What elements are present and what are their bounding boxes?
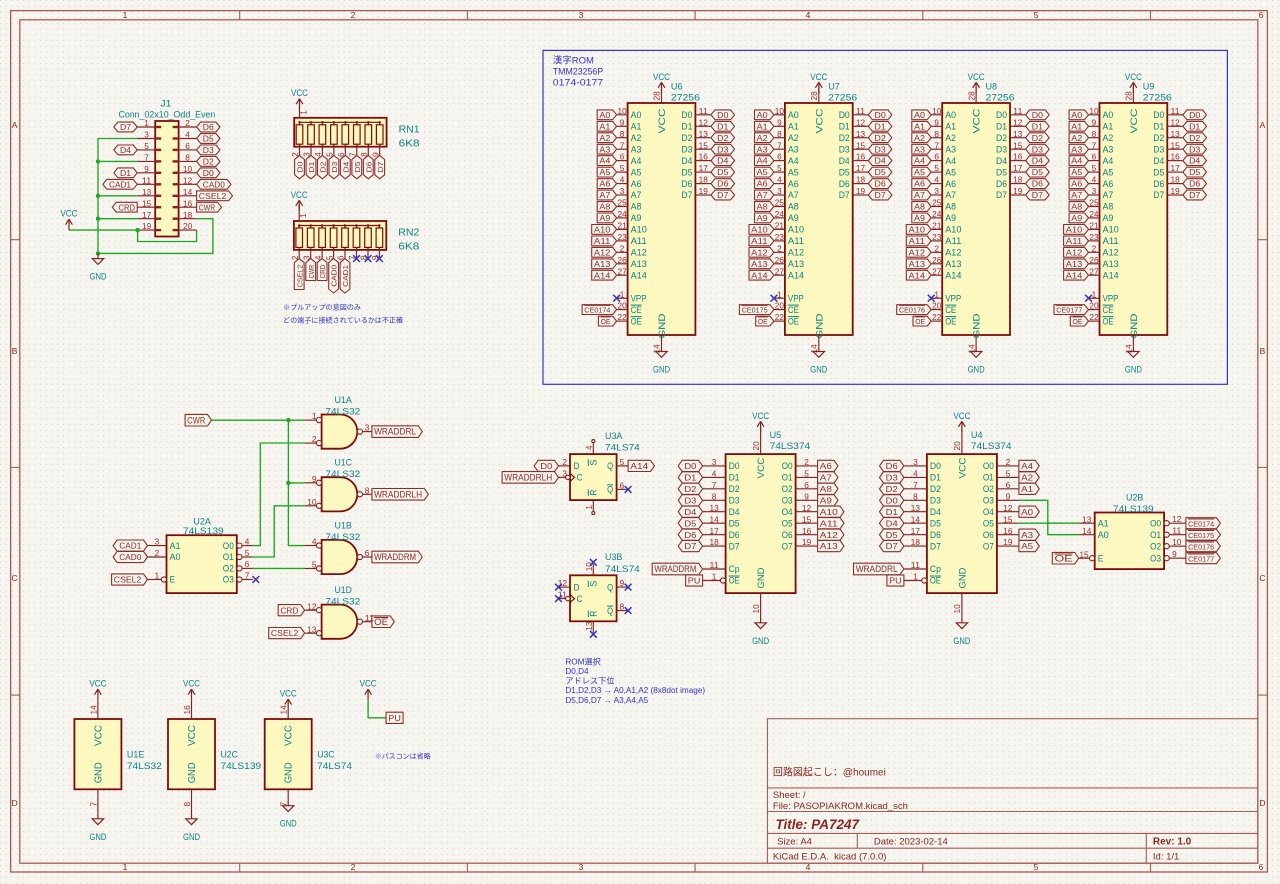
- global label D6: [363, 155, 373, 178]
- global label A0 (U4 O4): [1019, 506, 1039, 517]
- svg-text:D0: D0: [681, 110, 692, 120]
- svg-text:A8: A8: [945, 202, 956, 212]
- svg-text:1: 1: [155, 572, 160, 581]
- svg-text:A5: A5: [1071, 168, 1083, 177]
- svg-text:D4: D4: [930, 507, 941, 517]
- global label D2 (U4 D2): [880, 483, 904, 494]
- svg-text:A12: A12: [751, 248, 768, 257]
- global label CRD: [112, 202, 137, 212]
- global label OE (U8): [913, 316, 931, 326]
- svg-text:CE: CE: [1103, 305, 1114, 315]
- svg-text:18: 18: [1013, 176, 1023, 185]
- svg-text:D5: D5: [875, 168, 887, 177]
- global label A1 (U9): [1069, 121, 1088, 131]
- svg-text:A10: A10: [820, 507, 838, 517]
- svg-text:D4: D4: [996, 156, 1007, 166]
- svg-text:D6: D6: [839, 179, 850, 189]
- svg-text:A8: A8: [1071, 203, 1083, 212]
- svg-text:A12: A12: [820, 530, 838, 540]
- svg-text:19: 19: [802, 538, 812, 547]
- svg-text:A11: A11: [945, 236, 961, 246]
- global label D2: [318, 155, 328, 178]
- svg-text:D5: D5: [839, 167, 850, 177]
- svg-text:D7: D7: [717, 191, 729, 200]
- svg-text:CAD1: CAD1: [109, 180, 132, 189]
- no-connect R U3B: [590, 631, 597, 638]
- svg-text:A14: A14: [909, 271, 926, 280]
- svg-text:D5: D5: [930, 518, 941, 528]
- global label A3 (U8): [912, 144, 931, 154]
- svg-text:27256: 27256: [671, 93, 700, 104]
- global label WRADDRLH (out U1C): [372, 489, 428, 501]
- svg-text:VCC: VCC: [653, 72, 670, 82]
- svg-text:A14: A14: [788, 270, 804, 280]
- svg-text:1: 1: [913, 573, 918, 582]
- svg-text:A9: A9: [914, 214, 926, 223]
- power flag VCC: [66, 219, 73, 230]
- global label A4 (U8): [912, 156, 931, 166]
- svg-text:WRADDRLH: WRADDRLH: [374, 489, 422, 499]
- svg-text:D6: D6: [930, 530, 941, 540]
- svg-text:A3: A3: [788, 144, 799, 154]
- svg-text:A2: A2: [945, 133, 956, 143]
- svg-text:7: 7: [913, 481, 918, 490]
- global label D0 (U6): [711, 110, 735, 120]
- svg-text:10: 10: [1172, 538, 1182, 547]
- svg-text:D0: D0: [886, 495, 898, 505]
- svg-text:D1: D1: [839, 122, 850, 132]
- power unit U3C: [265, 719, 312, 789]
- junction: [286, 418, 290, 422]
- svg-text:8: 8: [777, 130, 782, 139]
- no-connect VPP U9: [1085, 295, 1092, 302]
- svg-text:A: A: [1260, 120, 1266, 130]
- flip-flop U3A 74LS74: [570, 454, 617, 500]
- svg-text:D6: D6: [996, 179, 1007, 189]
- svg-text:D5: D5: [1032, 168, 1044, 177]
- svg-text:3: 3: [934, 187, 939, 196]
- wire: [253, 567, 305, 569]
- svg-text:12: 12: [1172, 515, 1182, 524]
- svg-text:O2: O2: [782, 484, 793, 494]
- global label CE0177: [1054, 305, 1089, 315]
- svg-text:GND: GND: [752, 636, 769, 646]
- svg-text:D6: D6: [684, 530, 696, 540]
- svg-text:A10: A10: [945, 225, 961, 235]
- register U5 74LS374: [726, 454, 796, 593]
- svg-text:21: 21: [775, 222, 785, 231]
- global label D7 (U8): [1026, 190, 1050, 200]
- global label D4 (U9): [1183, 156, 1207, 166]
- global label D6 (U5 D6): [678, 529, 702, 540]
- global label D4 (U8): [1026, 156, 1050, 166]
- svg-text:A12: A12: [594, 248, 611, 257]
- wire: [1019, 500, 1079, 534]
- svg-text:A14: A14: [945, 270, 961, 280]
- svg-text:A12: A12: [788, 248, 804, 258]
- svg-text:12: 12: [802, 504, 812, 513]
- global label OE (U7): [756, 316, 774, 326]
- svg-text:16: 16: [183, 705, 192, 715]
- global label D2 (U9): [1183, 133, 1207, 143]
- svg-text:28: 28: [810, 91, 819, 101]
- svg-text:CSEL2: CSEL2: [199, 192, 227, 201]
- ground (U7): [813, 346, 824, 357]
- svg-text:OE: OE: [930, 576, 941, 586]
- global label A5 (U9): [1069, 167, 1088, 177]
- svg-text:1: 1: [123, 862, 128, 872]
- svg-text:16: 16: [699, 153, 709, 162]
- svg-text:A6: A6: [1103, 179, 1114, 189]
- global label A14 (U8): [906, 270, 931, 280]
- global label A6 (U7): [755, 179, 774, 189]
- svg-text:Id: 1/1: Id: 1/1: [1153, 852, 1179, 863]
- svg-text:74LS32: 74LS32: [325, 532, 360, 543]
- svg-text:2: 2: [185, 119, 190, 128]
- svg-text:A0: A0: [1021, 507, 1033, 517]
- svg-text:4: 4: [585, 445, 594, 450]
- svg-text:CE: CE: [788, 305, 799, 315]
- svg-text:A4: A4: [788, 156, 799, 166]
- svg-text:25: 25: [932, 199, 942, 208]
- svg-text:D1: D1: [684, 473, 696, 483]
- svg-text:D6: D6: [681, 179, 692, 189]
- svg-text:D6: D6: [875, 180, 887, 189]
- svg-text:D3: D3: [681, 144, 692, 154]
- svg-text:11: 11: [1171, 107, 1181, 116]
- svg-text:11: 11: [142, 176, 152, 185]
- global label A3 (U9): [1069, 144, 1088, 154]
- wire: [69, 229, 137, 231]
- svg-text:2: 2: [804, 458, 809, 467]
- svg-text:VCC: VCC: [291, 190, 308, 200]
- svg-text:Cp: Cp: [930, 564, 941, 574]
- global label D1: [114, 168, 137, 178]
- wire: [98, 219, 213, 254]
- power flag VCC (U9): [1130, 82, 1137, 93]
- global label CE0176: [897, 305, 932, 315]
- svg-text:CRD: CRD: [318, 264, 327, 278]
- svg-text:4: 4: [620, 176, 625, 185]
- svg-text:A14: A14: [1066, 271, 1083, 280]
- global label A5 (U7): [755, 167, 774, 177]
- svg-text:O7: O7: [983, 541, 994, 551]
- svg-text:A10: A10: [594, 226, 611, 235]
- svg-text:16: 16: [856, 153, 866, 162]
- svg-text:O2: O2: [223, 564, 234, 574]
- svg-text:A1: A1: [1103, 122, 1114, 132]
- svg-text:A2: A2: [599, 134, 611, 143]
- power unit U2C: [168, 719, 215, 789]
- svg-text:WRADDRL: WRADDRL: [856, 564, 898, 574]
- svg-text:D1: D1: [1032, 122, 1044, 131]
- svg-text:VCC: VCC: [284, 725, 295, 746]
- global label A3 (U6): [597, 144, 616, 154]
- svg-text:Title: PA7247: Title: PA7247: [776, 817, 861, 832]
- global label CE0175 (U2B): [1186, 529, 1221, 540]
- wire: [368, 700, 386, 718]
- svg-text:A1: A1: [945, 122, 956, 132]
- svg-text:CSEL2: CSEL2: [271, 628, 299, 638]
- svg-text:OE: OE: [758, 317, 768, 326]
- svg-text:22: 22: [775, 313, 785, 322]
- global label D6: [197, 122, 220, 132]
- svg-text:7: 7: [934, 141, 939, 150]
- global label D6 (U9): [1183, 179, 1207, 189]
- global label A10 (U9): [1064, 225, 1089, 235]
- svg-text:D4: D4: [717, 157, 729, 166]
- no-connect: [376, 255, 383, 262]
- svg-text:D5: D5: [996, 167, 1007, 177]
- svg-text:18: 18: [710, 538, 720, 547]
- global label A10 (U5 O4): [818, 506, 844, 517]
- global label A1 (U7): [755, 121, 774, 131]
- ground (U1E): [92, 814, 103, 825]
- svg-text:A12: A12: [909, 248, 926, 257]
- global label D5 (U5 D5): [678, 518, 702, 529]
- svg-text:D2: D2: [996, 133, 1007, 143]
- global label CE0174: [582, 305, 617, 315]
- svg-text:4: 4: [312, 538, 317, 547]
- svg-text:A14: A14: [630, 461, 648, 471]
- svg-text:14: 14: [911, 515, 921, 524]
- svg-text:A10: A10: [1066, 226, 1083, 235]
- svg-text:10: 10: [775, 107, 785, 116]
- svg-text:D1: D1: [1189, 122, 1201, 131]
- global label D3 (U8): [1026, 144, 1050, 154]
- global label A5 (U6): [597, 167, 616, 177]
- global label A2 (U9): [1069, 133, 1088, 143]
- no-connect O3 U2A: [252, 576, 259, 583]
- svg-text:※プルアップの意図のみ: ※プルアップの意図のみ: [283, 303, 361, 312]
- svg-text:GND: GND: [968, 365, 985, 375]
- svg-text:O3: O3: [1150, 553, 1161, 563]
- global label CSEL2 (U2A): [112, 574, 148, 585]
- global label D6 (U4 D0): [880, 460, 904, 471]
- global label CE0176 (U2B): [1186, 541, 1221, 552]
- no-connect C U3B: [555, 595, 562, 602]
- svg-text:A0: A0: [631, 110, 642, 120]
- svg-text:O0: O0: [223, 541, 234, 551]
- svg-text:GND: GND: [810, 365, 827, 375]
- svg-text:25: 25: [1089, 199, 1099, 208]
- svg-text:74LS374: 74LS374: [971, 441, 1012, 452]
- svg-text:9: 9: [1092, 118, 1097, 127]
- svg-text:CRD: CRD: [280, 605, 298, 615]
- global label A12 (U5 O6): [818, 529, 844, 540]
- svg-text:4: 4: [934, 176, 939, 185]
- wire: [1019, 522, 1079, 524]
- svg-text:A13: A13: [909, 260, 926, 269]
- svg-text:25: 25: [775, 199, 785, 208]
- global label A4 (U7): [755, 156, 774, 166]
- svg-text:VCC: VCC: [752, 411, 769, 421]
- svg-text:24: 24: [775, 210, 785, 219]
- svg-text:A13: A13: [1103, 259, 1119, 269]
- svg-text:O1: O1: [1150, 530, 1161, 540]
- svg-text:D4: D4: [1153, 156, 1164, 166]
- global label A9 (U6): [597, 213, 616, 223]
- svg-text:A3: A3: [1021, 530, 1033, 540]
- global label A5 (U4 O7): [1019, 541, 1039, 552]
- svg-text:アドレス下位: アドレス下位: [565, 676, 614, 686]
- svg-text:A4: A4: [1021, 461, 1033, 471]
- svg-text:B: B: [1260, 346, 1266, 356]
- svg-text:GND: GND: [183, 832, 200, 842]
- svg-text:5: 5: [777, 164, 782, 173]
- svg-text:9: 9: [620, 118, 625, 127]
- svg-text:A10: A10: [1103, 225, 1119, 235]
- svg-text:A9: A9: [757, 214, 769, 223]
- svg-text:CRD: CRD: [119, 203, 136, 212]
- svg-text:21: 21: [1089, 222, 1099, 231]
- svg-text:19: 19: [1171, 187, 1181, 196]
- svg-text:CAD0: CAD0: [119, 552, 141, 562]
- svg-text:A13: A13: [1066, 260, 1083, 269]
- svg-text:1: 1: [144, 119, 149, 128]
- svg-text:GND: GND: [972, 313, 982, 338]
- svg-text:19: 19: [1003, 538, 1013, 547]
- power unit U1E: [74, 719, 121, 789]
- svg-text:D0: D0: [930, 461, 941, 471]
- svg-text:D2: D2: [319, 162, 328, 173]
- svg-text:A1: A1: [1098, 518, 1109, 528]
- svg-text:A14: A14: [594, 271, 611, 280]
- global label D5 (U6): [711, 167, 735, 177]
- svg-text:A1: A1: [757, 122, 769, 131]
- global label CSEL2: [197, 191, 233, 201]
- global label A2 (U4 O1): [1019, 472, 1039, 483]
- svg-text:D0: D0: [839, 110, 850, 120]
- global label A8 (U9): [1069, 202, 1088, 212]
- svg-text:15: 15: [1171, 141, 1181, 150]
- svg-text:O3: O3: [983, 496, 994, 506]
- svg-text:Cp: Cp: [729, 564, 740, 574]
- svg-text:11: 11: [856, 107, 866, 116]
- svg-text:A12: A12: [631, 248, 647, 258]
- svg-text:A11: A11: [820, 518, 838, 528]
- svg-text:C: C: [577, 594, 583, 604]
- svg-text:12: 12: [307, 602, 317, 611]
- svg-text:A11: A11: [1103, 236, 1119, 246]
- svg-text:D0: D0: [717, 111, 729, 120]
- svg-text:13: 13: [1013, 130, 1023, 139]
- svg-text:D6: D6: [886, 461, 898, 471]
- svg-text:A5: A5: [757, 168, 769, 177]
- svg-text:10: 10: [752, 604, 761, 614]
- svg-text:D7: D7: [120, 123, 132, 132]
- svg-text:CE0174: CE0174: [584, 306, 610, 315]
- svg-text:D5: D5: [729, 518, 740, 528]
- global label A8 (U5 O2): [818, 483, 838, 494]
- svg-text:A4: A4: [599, 157, 611, 166]
- global label WRADDRL (U4 Cp): [854, 563, 904, 575]
- global label CAD0: [113, 551, 147, 562]
- svg-text:12: 12: [1003, 504, 1013, 513]
- svg-text:26: 26: [618, 256, 628, 265]
- svg-text:28: 28: [653, 91, 662, 101]
- svg-text:8: 8: [185, 154, 190, 163]
- svg-text:D3: D3: [729, 496, 740, 506]
- svg-text:1: 1: [123, 10, 128, 20]
- svg-text:6: 6: [934, 153, 939, 162]
- svg-text:D6: D6: [717, 180, 729, 189]
- junction: [96, 159, 100, 163]
- svg-text:VCC: VCC: [756, 457, 766, 478]
- svg-text:27256: 27256: [1143, 93, 1172, 104]
- wire: [288, 420, 304, 545]
- svg-text:D1: D1: [1153, 122, 1164, 132]
- svg-text:D4: D4: [684, 507, 696, 517]
- global label D5 (U7): [868, 167, 892, 177]
- svg-text:GND: GND: [1129, 313, 1139, 338]
- wire: [212, 419, 305, 421]
- svg-text:A6: A6: [631, 179, 642, 189]
- ground (U4): [956, 618, 967, 629]
- global label D1 (U4 D4): [880, 506, 904, 517]
- svg-text:回路図起こし：@houmei: 回路図起こし：@houmei: [773, 766, 886, 779]
- svg-text:D2: D2: [1189, 134, 1201, 143]
- svg-text:20: 20: [183, 222, 193, 231]
- svg-text:D3: D3: [886, 473, 898, 483]
- global label D5: [352, 155, 362, 178]
- ground (U2C): [186, 814, 197, 825]
- svg-text:D1: D1: [729, 473, 740, 483]
- svg-text:17: 17: [699, 164, 709, 173]
- global label A10 (U7): [749, 225, 774, 235]
- svg-text:A8: A8: [788, 202, 799, 212]
- wire: [253, 506, 305, 557]
- svg-text:74LS74: 74LS74: [605, 443, 640, 454]
- svg-text:A9: A9: [820, 495, 832, 505]
- svg-text:A9: A9: [945, 213, 956, 223]
- global label A0 (U6): [597, 110, 616, 120]
- svg-text:3: 3: [365, 424, 370, 433]
- svg-text:D5: D5: [681, 167, 692, 177]
- svg-text:A8: A8: [631, 202, 642, 212]
- svg-text:2: 2: [351, 862, 356, 872]
- svg-text:D3: D3: [839, 144, 850, 154]
- svg-text:13: 13: [1082, 515, 1092, 524]
- svg-text:16: 16: [1003, 527, 1013, 536]
- global label A8 (U7): [755, 202, 774, 212]
- svg-text:A1: A1: [914, 122, 926, 131]
- svg-text:15: 15: [142, 199, 152, 208]
- svg-text:D1,D2,D3 → A0,A1,A2 (8x8dot im: D1,D2,D3 → A0,A1,A2 (8x8dot image): [565, 686, 705, 695]
- svg-text:23: 23: [618, 233, 628, 242]
- wire: [288, 482, 304, 484]
- svg-text:18: 18: [183, 211, 193, 220]
- svg-text:R: R: [589, 489, 599, 495]
- svg-text:19: 19: [142, 222, 152, 231]
- svg-text:74LS139: 74LS139: [221, 761, 262, 772]
- svg-text:O5: O5: [983, 518, 994, 528]
- svg-text:D1: D1: [875, 122, 887, 131]
- svg-text:D0: D0: [540, 461, 552, 471]
- svg-text:D6: D6: [203, 123, 215, 132]
- svg-text:A4: A4: [945, 156, 956, 166]
- svg-text:3: 3: [1092, 187, 1097, 196]
- global label A12 (U8): [906, 247, 931, 257]
- junction: [96, 194, 100, 198]
- svg-text:15: 15: [699, 141, 709, 150]
- svg-text:D0: D0: [1153, 110, 1164, 120]
- svg-text:A9: A9: [1103, 213, 1114, 223]
- svg-text:A1: A1: [631, 122, 642, 132]
- global label A0 (U8): [912, 110, 931, 120]
- global label A14 (U9): [1064, 270, 1089, 280]
- global label CWR (U1A): [185, 414, 211, 426]
